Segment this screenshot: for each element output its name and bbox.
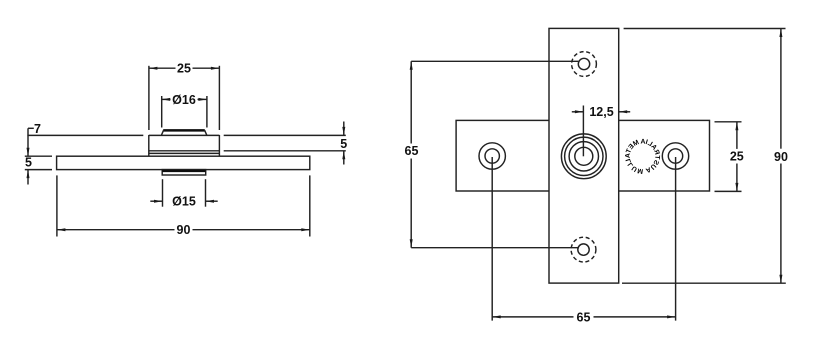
dim 65 horizontal (bottom of top view) bbox=[492, 157, 675, 324]
svg-text:5: 5 bbox=[25, 155, 32, 169]
svg-text:7: 7 bbox=[34, 122, 41, 136]
dim 25 (top of left view) bbox=[149, 62, 220, 130]
svg-text:65: 65 bbox=[577, 310, 591, 324]
horizontal plate top view bbox=[456, 120, 709, 191]
svg-text:65: 65 bbox=[405, 144, 419, 158]
top boss (Ø16 pivot) bbox=[161, 130, 206, 135]
svg-text:5: 5 bbox=[340, 137, 347, 151]
dim Ø15 bbox=[150, 179, 217, 208]
hole right bbox=[662, 143, 688, 169]
dim 5 right bbox=[340, 122, 347, 165]
dim 12,5 bbox=[572, 105, 630, 119]
svg-text:25: 25 bbox=[177, 62, 191, 76]
dim 90 (plate width) bbox=[57, 175, 310, 237]
reference line top (left view) bbox=[27, 134, 345, 136]
maker stamp METALLUM AUSTRALIA (mirrored) bbox=[625, 138, 661, 174]
hole left bbox=[479, 143, 505, 169]
svg-text:90: 90 bbox=[177, 223, 191, 237]
svg-text:90: 90 bbox=[774, 150, 788, 164]
dim 7 bbox=[27, 122, 42, 156]
block (25 wide housing) bbox=[149, 135, 220, 156]
dim 25 right bbox=[715, 122, 744, 192]
svg-text:Ø15: Ø15 bbox=[172, 195, 196, 209]
vertical plate top view bbox=[549, 28, 619, 283]
svg-text:12,5: 12,5 bbox=[589, 105, 613, 119]
center pivot boss circles bbox=[561, 134, 606, 179]
center line of 12,5 bbox=[582, 106, 584, 157]
dim 90 right bbox=[622, 29, 788, 284]
dim 65 vertical (left of top view) bbox=[405, 61, 579, 247]
base plate side view bbox=[57, 156, 310, 169]
dim 5 left (plate thickness) bbox=[25, 155, 52, 184]
hole bottom (dashed countersink) bbox=[571, 237, 596, 262]
svg-text:25: 25 bbox=[730, 150, 744, 164]
dim Ø16 bbox=[162, 93, 207, 128]
bottom boss (Ø15) bbox=[162, 170, 206, 175]
svg-text:Ø16: Ø16 bbox=[172, 93, 196, 107]
cover plate line (5 thick layer bottom) bbox=[149, 150, 346, 152]
hole top (dashed countersink) bbox=[572, 52, 597, 77]
